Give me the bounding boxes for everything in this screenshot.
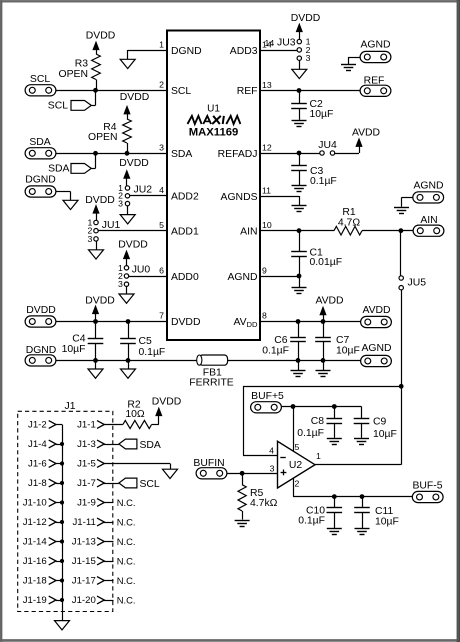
- svg-text:J1-1: J1-1: [77, 420, 96, 431]
- svg-text:JU0: JU0: [132, 265, 151, 276]
- svg-text:SDA: SDA: [48, 164, 69, 175]
- svg-text:14: 14: [265, 38, 275, 48]
- svg-text:DVDD: DVDD: [119, 158, 148, 169]
- svg-text:0.1µF: 0.1µF: [298, 516, 325, 527]
- svg-text:DVDD: DVDD: [85, 195, 114, 206]
- svg-text:J1-11: J1-11: [73, 517, 96, 528]
- svg-text:SCL: SCL: [140, 479, 160, 490]
- svg-text:10µF: 10µF: [62, 344, 86, 355]
- svg-text:DGND: DGND: [26, 345, 57, 356]
- svg-text:ADD0: ADD0: [171, 272, 199, 283]
- svg-text:U2: U2: [289, 460, 303, 471]
- svg-text:0.1µF: 0.1µF: [262, 346, 289, 357]
- svg-text:BUF-5: BUF-5: [412, 481, 442, 492]
- svg-text:8: 8: [262, 311, 267, 321]
- svg-text:3: 3: [87, 234, 92, 244]
- svg-text:J1-12: J1-12: [23, 517, 47, 528]
- svg-text:AGNDS: AGNDS: [221, 192, 258, 203]
- svg-text:OPEN: OPEN: [88, 132, 117, 143]
- svg-text:AGND: AGND: [360, 40, 390, 51]
- svg-text:REF: REF: [364, 76, 385, 87]
- svg-text:J1-4: J1-4: [28, 439, 47, 450]
- svg-text:AGND: AGND: [361, 343, 391, 354]
- svg-text:J1-7: J1-7: [77, 478, 96, 489]
- svg-text:1: 1: [316, 451, 321, 461]
- svg-text:0.01µF: 0.01µF: [310, 257, 343, 268]
- svg-text:JU1: JU1: [102, 220, 121, 231]
- svg-text:AVDD: AVDD: [352, 128, 380, 139]
- svg-text:10Ω: 10Ω: [125, 409, 145, 420]
- svg-text:J1: J1: [65, 401, 76, 412]
- svg-text:C4: C4: [72, 334, 86, 345]
- svg-text:J1-18: J1-18: [23, 576, 47, 587]
- svg-text:J1-2: J1-2: [28, 420, 47, 431]
- svg-text:J1-13: J1-13: [72, 537, 96, 548]
- svg-text:C6: C6: [274, 335, 288, 346]
- svg-text:J1-20: J1-20: [72, 595, 96, 606]
- svg-text:SCL: SCL: [48, 101, 68, 112]
- svg-text:5: 5: [159, 220, 164, 230]
- svg-text:5: 5: [295, 442, 300, 452]
- svg-text:10: 10: [262, 220, 272, 230]
- svg-text:AIN: AIN: [420, 215, 437, 226]
- svg-text:BUF+5: BUF+5: [251, 391, 284, 402]
- svg-text:C7: C7: [336, 335, 350, 346]
- svg-text:AVDD: AVDD: [362, 305, 390, 316]
- svg-text:13: 13: [262, 80, 272, 90]
- svg-text:DVDD: DVDD: [291, 13, 320, 24]
- svg-text:2: 2: [159, 80, 164, 90]
- svg-text:ADD1: ADD1: [171, 227, 199, 238]
- svg-text:N.C.: N.C.: [117, 556, 136, 567]
- svg-text:ADD3: ADD3: [230, 46, 258, 57]
- svg-text:9: 9: [262, 266, 267, 276]
- svg-text:N.C.: N.C.: [117, 497, 136, 508]
- svg-text:N.C.: N.C.: [117, 536, 136, 547]
- svg-text:DVDD: DVDD: [26, 305, 55, 316]
- svg-text:0.1µF: 0.1µF: [139, 347, 166, 358]
- svg-text:10µF: 10µF: [375, 517, 399, 528]
- svg-text:OPEN: OPEN: [59, 69, 88, 80]
- svg-text:J1-14: J1-14: [23, 537, 48, 548]
- svg-text:BUFIN: BUFIN: [193, 458, 224, 469]
- svg-text:MAX1169: MAX1169: [189, 126, 239, 138]
- svg-text:2: 2: [295, 478, 300, 488]
- svg-text:3: 3: [118, 279, 123, 289]
- svg-text:J1-5: J1-5: [77, 459, 96, 470]
- svg-text:0.1µF: 0.1µF: [297, 428, 324, 439]
- svg-text:U1: U1: [207, 104, 220, 115]
- svg-text:DVDD: DVDD: [85, 295, 114, 306]
- svg-text:J1-15: J1-15: [72, 556, 96, 567]
- svg-text:J1-9: J1-9: [77, 498, 96, 509]
- svg-text:DVDD: DVDD: [86, 30, 115, 41]
- svg-text:10µF: 10µF: [336, 346, 360, 357]
- svg-text:DVDD: DVDD: [171, 317, 200, 328]
- svg-text:DVDD: DVDD: [118, 239, 147, 250]
- svg-text:J1-8: J1-8: [28, 478, 47, 489]
- svg-text:4: 4: [159, 185, 164, 195]
- svg-text:10µF: 10µF: [310, 109, 334, 120]
- svg-text:C9: C9: [373, 417, 387, 428]
- svg-text:0.1µF: 0.1µF: [310, 176, 337, 187]
- svg-text:3: 3: [270, 464, 275, 474]
- svg-text:SCL: SCL: [171, 86, 191, 97]
- svg-text:4: 4: [269, 446, 274, 456]
- svg-text:J1-16: J1-16: [23, 556, 47, 567]
- svg-text:J1-3: J1-3: [77, 439, 96, 450]
- svg-text:SDA: SDA: [29, 137, 50, 148]
- svg-text:AGND: AGND: [227, 272, 257, 283]
- svg-text:REFADJ: REFADJ: [218, 149, 258, 160]
- svg-text:REF: REF: [237, 86, 258, 97]
- svg-text:7: 7: [159, 311, 164, 321]
- svg-text:N.C.: N.C.: [117, 575, 136, 586]
- svg-text:DGND: DGND: [171, 46, 202, 57]
- svg-text:DVDD: DVDD: [152, 396, 181, 407]
- svg-text:N.C.: N.C.: [117, 517, 136, 528]
- svg-text:DVDD: DVDD: [120, 92, 149, 103]
- svg-text:AGND: AGND: [413, 181, 443, 192]
- svg-text:C8: C8: [311, 416, 325, 427]
- svg-text:SCL: SCL: [30, 74, 50, 85]
- svg-text:JU5: JU5: [408, 277, 427, 288]
- svg-text:12: 12: [262, 143, 272, 153]
- svg-text:3: 3: [159, 143, 164, 153]
- svg-text:JU4: JU4: [318, 140, 337, 151]
- svg-text:4.7kΩ: 4.7kΩ: [250, 498, 278, 509]
- svg-text:J1-17: J1-17: [72, 576, 96, 587]
- svg-text:AIN: AIN: [240, 227, 257, 238]
- svg-text:J1-19: J1-19: [23, 595, 47, 606]
- svg-text:SDA: SDA: [140, 440, 161, 451]
- svg-text:DGND: DGND: [25, 175, 56, 186]
- svg-text:J1-10: J1-10: [23, 498, 47, 509]
- svg-text:JU3: JU3: [277, 38, 296, 49]
- svg-text:N.C.: N.C.: [117, 595, 136, 606]
- svg-text:10µF: 10µF: [373, 429, 397, 440]
- svg-text:SDA: SDA: [171, 149, 192, 160]
- svg-text:FERRITE: FERRITE: [189, 378, 234, 389]
- svg-text:C5: C5: [139, 336, 153, 347]
- svg-text:JU2: JU2: [134, 185, 153, 196]
- svg-text:J1-6: J1-6: [28, 459, 47, 470]
- svg-text:AVDD: AVDD: [315, 295, 343, 306]
- svg-text:4.7Ω: 4.7Ω: [338, 217, 360, 228]
- svg-text:3: 3: [306, 53, 311, 63]
- svg-text:11: 11: [262, 186, 271, 196]
- svg-text:3: 3: [118, 199, 123, 209]
- svg-text:6: 6: [159, 266, 164, 276]
- svg-text:C11: C11: [375, 506, 394, 517]
- svg-text:ADD2: ADD2: [171, 192, 199, 203]
- svg-text:1: 1: [159, 40, 164, 50]
